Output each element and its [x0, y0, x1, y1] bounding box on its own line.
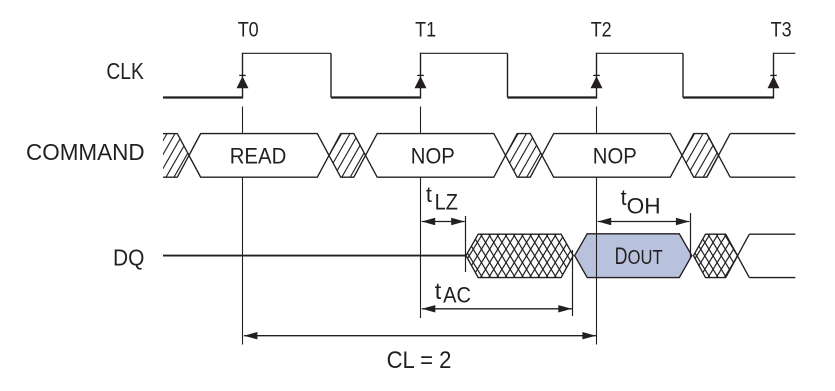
wire DQ open bus rails at right [726, 234, 796, 277]
node DQ signal label [113, 245, 144, 271]
svg-text:COMMAND: COMMAND [26, 139, 145, 165]
node DQ post-data invalid hatch [659, 234, 768, 277]
wire T2 clock-edge reference line [596, 107, 598, 345]
wire T2 line across DOUT [596, 234, 598, 278]
svg-text:T3: T3 [771, 18, 792, 41]
value label DOUT [615, 243, 663, 270]
svg-text:T2: T2 [591, 18, 612, 41]
node COMMAND signal label [26, 139, 145, 165]
node tick at DQ valid start (tAC right bound) [572, 250, 574, 316]
svg-text:OUT: OUT [628, 247, 663, 269]
node rising-edge arrow T1 [415, 75, 427, 88]
wire COMMAND open bus rails at right [707, 134, 796, 178]
svg-text:NOP: NOP [593, 143, 637, 168]
node DOUT outline [575, 234, 692, 278]
node COMMAND READ bus state [189, 134, 329, 178]
node COMMAND NOP bus state [366, 134, 506, 178]
svg-text:t: t [435, 278, 442, 304]
node tOH parameter label [621, 185, 661, 218]
wire CLK waveform [163, 53, 795, 99]
svg-text:T1: T1 [415, 18, 436, 41]
svg-text:OH: OH [627, 193, 661, 218]
node tick at DOUT end (tOH right bound) [690, 213, 692, 258]
node clock cycle label T1 [415, 18, 436, 41]
node tOH dimension arrow [598, 218, 690, 225]
node DQ invalid-data burst (cross-hatched) [431, 234, 605, 277]
node clock cycle label T2 [591, 18, 612, 41]
wire COMMAND bus left hatched stub [126, 134, 223, 178]
svg-text:CL = 2: CL = 2 [387, 347, 452, 374]
node CL=2 dimension arrow [244, 332, 596, 339]
node CL = 2 latency label [387, 347, 452, 374]
svg-text:D: D [615, 243, 628, 270]
svg-text:READ: READ [230, 143, 287, 168]
node COMMAND transition hatch 2 [468, 134, 577, 178]
wire T0 clock-edge reference line [242, 107, 244, 345]
node COMMAND transition hatch 1 [291, 134, 400, 178]
svg-text:LZ: LZ [435, 189, 458, 214]
node rising-edge arrow T3 [768, 75, 780, 88]
svg-text:AC: AC [443, 283, 471, 308]
svg-text:CLK: CLK [106, 58, 144, 84]
node rising-edge arrow T0 [237, 75, 249, 88]
node tAC parameter label [435, 278, 471, 308]
node CLK signal label [106, 58, 144, 84]
wire T1 clock-edge reference line [420, 107, 422, 319]
wire DQ high-Z line [163, 255, 466, 257]
svg-text:NOP: NOP [411, 143, 455, 168]
svg-text:t: t [426, 182, 433, 207]
node tick at DQ bus start (tLZ right bound) [465, 216, 467, 272]
svg-text:T0: T0 [238, 18, 259, 41]
svg-text:DQ: DQ [113, 245, 144, 271]
node COMMAND transition hatch 3 [644, 134, 753, 178]
node tAC dimension arrow [422, 305, 572, 312]
node COMMAND NOP bus state [542, 134, 682, 178]
node tLZ parameter label [426, 182, 458, 214]
node tLZ dimension arrow [422, 218, 465, 225]
node clock cycle label T3 [771, 18, 792, 41]
node clock cycle label T0 [238, 18, 259, 41]
node rising-edge arrow T2 [591, 75, 603, 88]
node DOUT valid-data bus [575, 234, 692, 278]
